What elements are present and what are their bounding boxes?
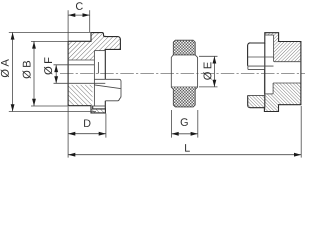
left rim hatched section upper [105,37,120,50]
left hub hatched section upper [68,33,105,60]
bush inner step line [248,68,265,70]
notch lower line [264,93,273,95]
dim G left extension line [171,110,173,138]
rubber element band [171,55,197,87]
notch lower vertical [272,83,274,94]
bush taper line [94,85,120,89]
dim ØB dimension line [33,41,35,106]
bore bottom [273,82,301,84]
dim D right extension line [105,114,107,138]
dimension lines [9,10,301,157]
dim G right extension line [197,110,199,138]
bore top [274,61,301,63]
dim D dimension line [68,133,106,135]
C arrow right [83,13,90,17]
right part main outline [248,33,301,112]
right flange hatched sliver beside notch [274,35,279,42]
label ØA [1,59,9,77]
boss (taper bush protrusion) [94,79,121,101]
pocket floor vertical [273,35,275,62]
dim L right extension line [300,106,302,158]
L arrow right [294,153,301,157]
A arrow top [11,32,15,39]
dim ØE dimension line [213,56,215,87]
centerline [60,73,305,75]
right part internal thin lines [248,35,301,95]
right rim left edge [248,43,251,66]
dim ØA dimension line [12,32,14,111]
dim ØF dimension line [55,65,57,84]
outline lower [68,106,105,113]
rubber element tread upper (checkered) [173,40,195,55]
dim D/L shared left extension line [67,107,69,158]
E arrow bottom [213,80,217,87]
label D [84,119,90,126]
hub left face [67,41,69,105]
keyway line [68,59,94,61]
pocket inner lower [248,94,265,96]
G arrow right [191,132,198,136]
right flange top hatched band [265,33,279,35]
right flange hatched sliver lower [274,83,279,94]
right rim hatched block lower [248,95,265,107]
dim ØA bottom extension line [9,111,96,113]
E arrow top [213,56,217,63]
dim L dimension line [68,154,301,156]
pocket inner upper [248,56,274,58]
rubber element tread lower (checkered) [171,87,197,107]
left flange bottom bar hatched [91,109,105,113]
F arrow bottom [54,76,58,83]
L arrow left [68,153,75,157]
D arrow right [99,132,106,136]
dim ØB top extension line [31,40,68,42]
label ØE [203,62,211,80]
dim ØA top extension line [9,31,92,33]
arrowheads [11,13,302,156]
A arrow bottom [11,104,15,111]
dim C left extension line [67,10,69,41]
right flange hatched section lower [265,94,279,112]
pocket roof line [94,50,105,52]
left part outline [68,33,121,113]
dim C dimension line [68,14,90,16]
left hub bore sliver upper [68,60,94,65]
flange left face [264,43,266,108]
bush inner step vertical [247,66,249,69]
left part internal thin lines [54,51,121,106]
flange face below boss [104,101,106,109]
F arrow top [54,65,58,72]
dim C right extension line [89,10,91,32]
dim ØB bottom extension line [31,105,68,107]
bush end face vertical [263,69,265,94]
B arrow bottom [32,99,36,106]
label G [181,118,188,126]
label L [185,144,190,151]
bush bore line upper [248,65,274,67]
right hub hatched section upper [274,42,301,62]
dim G dimension line [172,133,198,135]
label C [76,2,83,10]
dim ØE bottom extension line [199,86,218,88]
bore bottom line [54,82,106,84]
G arrow left [172,132,179,136]
label ØF [44,57,52,74]
dim ØE top extension line [199,55,218,57]
right hub hatched section lower [273,83,301,105]
right part outline [248,33,301,112]
bore top line [54,64,95,66]
bush pilot face upper [97,62,99,74]
B arrow top [32,41,36,48]
bush left face lower [93,83,95,106]
bore end face [93,51,95,84]
bush bottom edge [93,105,106,107]
notch roof [265,34,274,36]
C arrow left [68,13,75,17]
D arrow left [68,132,75,136]
outline upper [68,33,120,80]
left hub hatched section lower [68,85,92,106]
label ØB [22,61,30,79]
